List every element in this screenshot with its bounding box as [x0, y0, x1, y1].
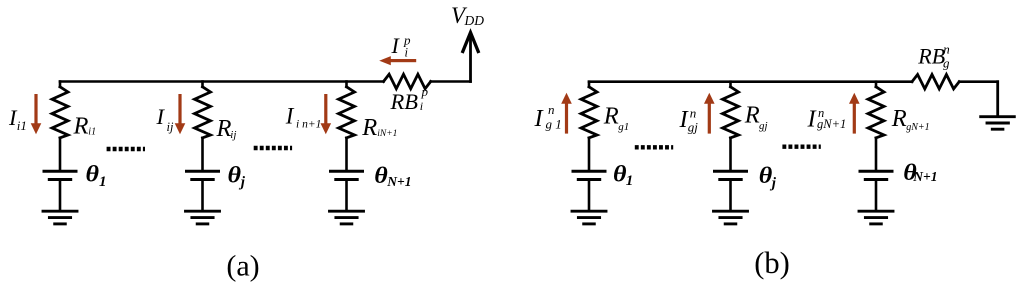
ground a2: [186, 211, 220, 224]
svg-text:R: R: [744, 102, 760, 129]
svg-text:θ: θ: [759, 163, 773, 189]
battery cell theta_j short plate (b): [720, 178, 741, 181]
svg-text:(a): (a): [226, 250, 259, 283]
current arrow I_in+1 (down): [321, 94, 332, 134]
battery cell theta_N+1 long plate (b): [860, 170, 892, 173]
label R_gN+1: [891, 105, 930, 133]
svg-text:ij: ij: [230, 129, 236, 141]
resistor R_g1: [581, 87, 597, 138]
battery cell theta_j long plate: [187, 170, 219, 173]
current arrow I_i1 (down): [31, 94, 42, 134]
svg-text:j: j: [770, 176, 777, 192]
ground b2: [714, 211, 748, 224]
wire: RB_i^p to VDD corner: [431, 80, 471, 83]
svg-text:n: n: [943, 42, 950, 57]
dots separator a2: [254, 146, 292, 150]
svg-text:gN+1: gN+1: [817, 117, 846, 131]
ground a3: [330, 211, 364, 224]
svg-text:iN+1: iN+1: [377, 129, 397, 139]
ground b1: [572, 211, 606, 224]
resistor R_ij: [195, 87, 211, 138]
wire: a3 resistor to battery: [345, 138, 348, 170]
current arrow I_gN+1^n (up): [849, 93, 860, 134]
wire: RB_g^n to right corner: [959, 80, 998, 83]
svg-text:i1: i1: [17, 118, 27, 133]
label R_ij: [216, 115, 237, 142]
svg-text:i: i: [420, 99, 423, 113]
svg-text:R: R: [603, 102, 619, 129]
svg-text:1: 1: [99, 174, 107, 190]
svg-text:RB: RB: [917, 43, 945, 68]
label I_in+1: [285, 104, 322, 131]
label I_i1: [8, 105, 27, 133]
svg-text:g 1: g 1: [546, 117, 562, 132]
label theta_1 (a): [86, 162, 107, 191]
label R_g1: [603, 102, 630, 133]
svg-text:θ: θ: [613, 161, 627, 187]
svg-text:θ: θ: [86, 162, 100, 188]
wire: a1 battery to ground: [59, 181, 62, 211]
current arrow I_ij (down): [175, 94, 186, 134]
battery cell theta_1 short plate (b): [578, 178, 599, 181]
label theta_j (b): [759, 163, 777, 192]
current arrow I_g1^n (up): [561, 93, 572, 134]
wire: a2 resistor to battery: [201, 138, 204, 170]
svg-text:N+1: N+1: [912, 169, 937, 184]
svg-text:R: R: [216, 115, 232, 142]
label I_ij: [156, 104, 174, 134]
label R_gj: [744, 102, 768, 132]
label RB_g^n: [917, 42, 950, 71]
svg-text:I: I: [391, 33, 401, 58]
wire: top bus (a): [60, 80, 384, 83]
svg-text:R: R: [361, 114, 377, 141]
dots separator a1: [107, 147, 145, 151]
wire: b2 battery to ground: [729, 181, 732, 211]
svg-text:DD: DD: [464, 13, 485, 28]
svg-text:R: R: [891, 105, 907, 132]
resistor RB_g^n (horizontal): [912, 75, 959, 89]
svg-text:i: i: [405, 45, 409, 59]
wire: a1 resistor to battery: [59, 138, 62, 170]
label I_gN+1^n: [807, 105, 847, 132]
wire: b1 resistor to battery: [588, 138, 591, 170]
battery cell theta_j short plate: [192, 178, 213, 181]
svg-text:g1: g1: [618, 121, 629, 133]
VDD arrowhead: [463, 33, 478, 52]
current arrow I_gj^n (up): [704, 93, 715, 134]
wire: branch b1 top: [588, 82, 591, 87]
wire: b3 battery to ground: [875, 181, 878, 211]
svg-text:gj: gj: [759, 120, 768, 132]
wire: branch a1 top: [59, 82, 62, 87]
wire: a3 battery to ground: [345, 181, 348, 211]
wire: branch a2 top: [201, 82, 204, 87]
wire: a2 battery to ground: [201, 181, 204, 211]
svg-text:(b): (b): [754, 246, 790, 280]
svg-text:I: I: [285, 104, 295, 129]
dots separator b2: [782, 144, 820, 148]
battery cell theta_N+1 long plate: [331, 170, 363, 173]
svg-text:θ: θ: [374, 163, 388, 189]
battery cell theta_1 long plate: [44, 170, 76, 173]
battery cell theta_N+1 short plate (b): [865, 178, 886, 181]
ground b3: [859, 211, 893, 224]
resistor RB_i^p (horizontal): [384, 74, 431, 88]
label RB_i^p: [390, 84, 429, 114]
label theta_j (a): [228, 163, 246, 191]
label I_g1^n: [534, 102, 562, 132]
battery cell theta_1 short plate: [49, 178, 70, 181]
label V_DD: [451, 3, 484, 28]
dots separator b1: [635, 145, 673, 149]
svg-text:1: 1: [626, 173, 634, 189]
battery cell theta_j long plate (b): [715, 170, 747, 173]
resistor R_gN+1: [868, 87, 884, 138]
label R_i1: [73, 113, 97, 140]
label theta_N+1 (a): [374, 163, 411, 189]
battery cell theta_N+1 short plate: [336, 178, 357, 181]
svg-text:ij: ij: [167, 120, 174, 134]
svg-text:n: n: [548, 102, 555, 117]
svg-text:gj: gj: [688, 119, 699, 134]
label theta_N+1 (b): [903, 160, 937, 186]
wire: branch b3 top: [875, 82, 878, 87]
wire: branch a3 top: [345, 82, 348, 87]
wire: b3 resistor to battery: [875, 138, 878, 170]
svg-text:g: g: [943, 56, 950, 71]
svg-text:gN+1: gN+1: [906, 122, 929, 133]
wire: b1 battery to ground: [588, 181, 591, 211]
label R_iN+1: [361, 114, 397, 141]
label I_i^p: [391, 33, 412, 60]
svg-text:i n+1: i n+1: [296, 119, 321, 131]
label theta_1 (b): [613, 161, 633, 189]
svg-text:i1: i1: [88, 126, 96, 137]
svg-text:R: R: [73, 113, 89, 140]
wire: VDD vertical lead: [469, 35, 472, 82]
svg-text:I: I: [534, 105, 545, 132]
svg-text:p: p: [421, 84, 429, 99]
svg-text:RB: RB: [390, 89, 419, 114]
svg-text:I: I: [807, 105, 818, 132]
svg-text:N+1: N+1: [386, 174, 411, 189]
current arrow I_i^p (left-pointing): [379, 56, 416, 65]
svg-text:j: j: [239, 175, 246, 191]
wire: right vertical to ground: [996, 82, 999, 115]
label I_gj^n: [679, 106, 699, 135]
resistor R_i1: [52, 87, 68, 138]
resistor R_gj: [723, 87, 739, 138]
ground a1: [43, 211, 77, 224]
wire: branch b2 top: [729, 82, 732, 87]
ground right (b): [981, 117, 1015, 130]
svg-text:θ: θ: [228, 163, 242, 189]
wire: top bus (b): [589, 80, 912, 83]
wire: b2 resistor to battery: [729, 138, 732, 170]
battery cell theta_1 long plate (b): [573, 170, 605, 173]
resistor R_iN+1: [339, 87, 355, 138]
svg-text:I: I: [156, 104, 166, 129]
